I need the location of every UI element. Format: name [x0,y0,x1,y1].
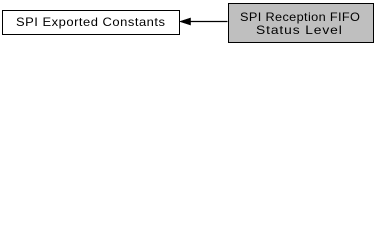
wire: horizontal edge line [190,21,228,23]
label: SPI Exported Constants [16,16,165,28]
label line 2: Status Level [256,24,343,36]
node: SPI Reception FIFO Status Level (right box, current, gray) [228,3,375,43]
edge: dependency arrow from right box to left box [0,0,377,51]
label line 1: SPI Reception FIFO [240,11,360,23]
arrowhead pointing at left box [180,18,191,25]
node: SPI Exported Constants (left box) [2,10,180,35]
